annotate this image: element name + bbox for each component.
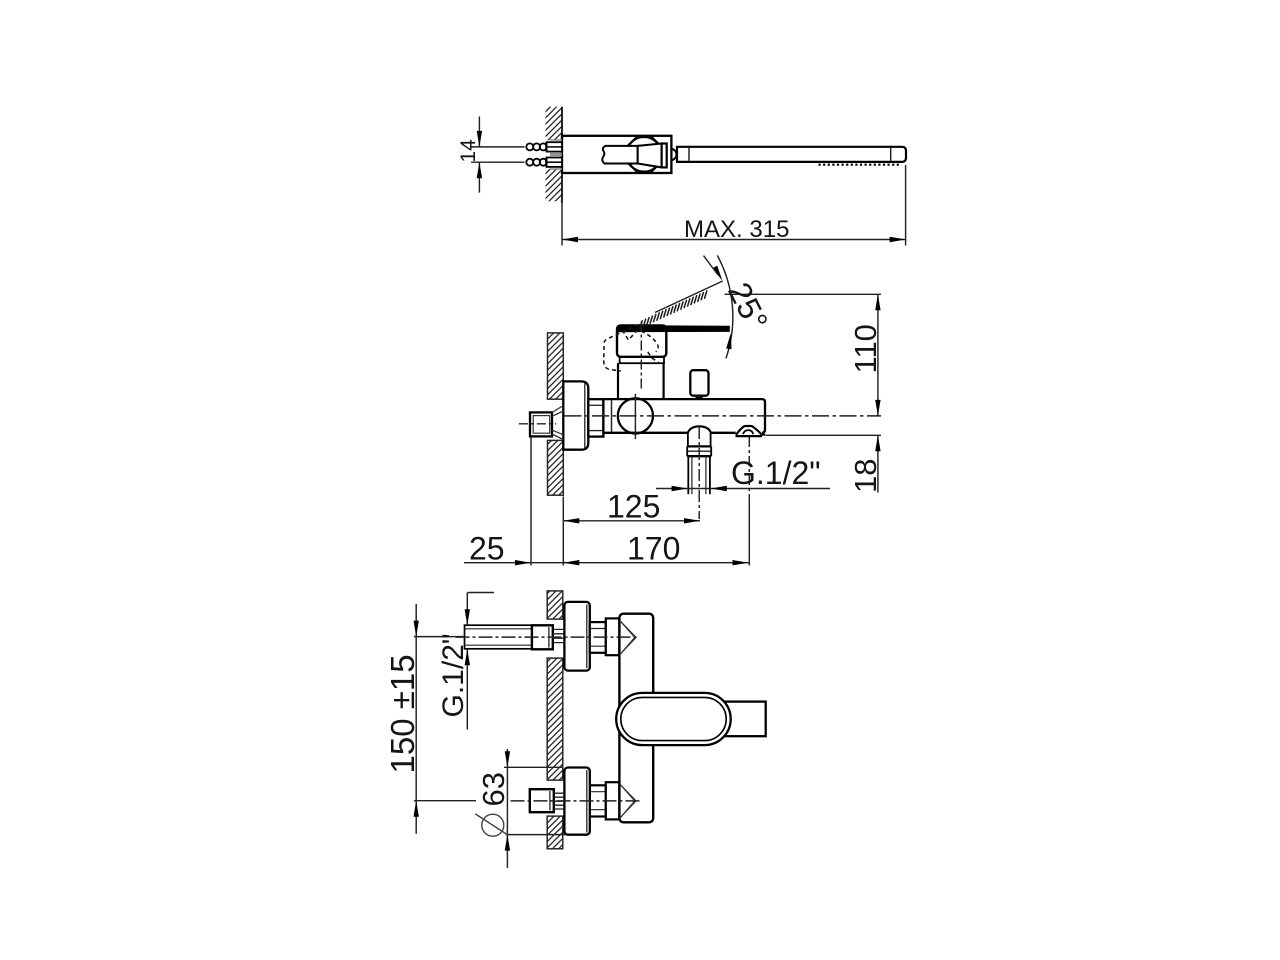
MAX.315 right extension line [905,165,907,246]
wall plate upper segment [548,333,564,399]
holder cone [552,406,563,440]
handle base [617,326,666,357]
wall plate lower segment [548,440,564,495]
dim 63 line + arrows [506,749,508,767]
top connector [590,622,606,653]
svg-text:18: 18 [848,459,883,493]
dim 125 [563,520,700,522]
svg-text:25: 25 [469,531,505,567]
diverter knob [690,370,708,396]
cartridge nut octagon (top view) [629,137,660,171]
25deg arc [717,255,733,358]
dim 14 extension lines [471,146,525,148]
bottom nut [530,789,554,812]
dim 150 line + arrows [415,604,417,834]
escutcheon flange [563,381,588,449]
top thread stub [553,629,564,642]
bottom escutcheon [564,768,589,835]
body left cap line [611,400,613,432]
svg-text:G.1/2": G.1/2" [731,455,821,491]
shower holder [530,412,552,436]
bottom thread stub [554,793,564,809]
check valve outlet below body [688,426,712,433]
lever bar (top view, with break squiggle) [602,146,637,164]
main body bar (side view) [603,399,765,433]
connector [588,399,603,436]
raised lever hatched band [640,290,707,328]
wall extension line down to MAX.315 dimension [561,203,563,246]
wall strip segments [547,591,563,619]
bottom inlet centerline [511,800,640,802]
tube joint lines [688,148,690,161]
dim G.1/2 (bottom view) [467,592,494,594]
top inlet stub [606,618,619,655]
spray face dotted line [819,164,901,166]
svg-text:G.1/2": G.1/2" [437,633,470,717]
dim 150 extension lines [414,636,464,638]
dim 63 extension lines [504,766,564,768]
wall hatching (top view) [546,107,563,141]
dim 14 lines + arrows [478,117,480,147]
dim G.1/2 (side) leader line [656,488,830,490]
hose outlet dome [736,426,761,435]
wall face line [561,107,563,203]
lever hub [662,144,667,168]
svg-text:63: 63 [476,772,511,806]
aerator bump [672,149,677,160]
svg-text:150 ±15: 150 ±15 [384,654,421,773]
extension lines bottom-left [530,438,532,566]
main centerline [565,415,882,417]
cartridge neck [617,363,619,399]
lever (black) [618,325,730,332]
lever widening trapezoid [638,144,662,168]
dashed raised handle outline [604,325,658,372]
svg-text:110: 110 [848,324,883,373]
dim 25 + 170 line [464,562,749,564]
dim 110 extension line (top) [725,293,882,295]
screw plug 1 (upper) [526,140,562,154]
MAX.315 dimension line [562,239,906,241]
handle lever (front view) [725,702,766,737]
dim 18 [766,434,881,436]
cartridge centerline [640,322,642,391]
check valve centerline [698,427,700,519]
svg-text:125: 125 [607,489,660,525]
handle ring [620,357,664,363]
holder centerline [519,423,556,425]
top eccentric rod [465,625,532,649]
faucet body (top view) [562,136,671,173]
valve circle [618,398,653,433]
handle stadium [616,693,731,745]
cartridge circle (top view) [627,137,662,172]
top nut [532,625,553,649]
top V chamfer [620,620,636,654]
top escutcheon [564,602,589,671]
svg-text:MAX. 315: MAX. 315 [684,216,790,243]
bottom connector pieces [590,785,606,816]
svg-text:170: 170 [627,531,680,567]
25deg ray [655,281,723,313]
dim 110 line [877,294,879,416]
hand shower tube (top view) [677,147,906,162]
screw plug 2 (lower) [526,155,562,169]
diameter symbol [482,814,504,836]
arc arrowheads [712,266,724,283]
hose outlet centerline/extension [748,437,750,500]
top inlet centerline [456,636,640,638]
main body (front view) [619,614,653,823]
svg-text:14: 14 [457,139,480,163]
